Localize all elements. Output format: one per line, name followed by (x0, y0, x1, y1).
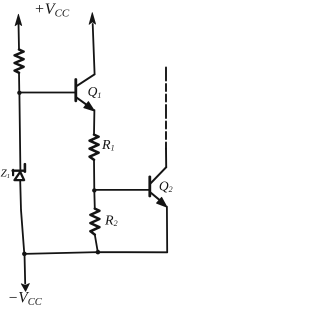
node (R1/R2/Q2-base junction) (92, 188, 96, 192)
resistor (unlabeled, left bias) (15, 50, 24, 73)
dashed wire (Q2 collector, to load) (165, 68, 167, 168)
resistor R2 (90, 209, 99, 235)
wire (R2 to bottom rail) (95, 235, 98, 253)
node (bottom-middle junction) (96, 250, 101, 255)
wire (R1 to node) (93, 160, 95, 191)
zener diode Z1 (13, 164, 25, 180)
wire (node to Q1 base) (19, 92, 75, 94)
wire (zener to bottom rail) (20, 180, 24, 253)
wire (resistor to node) (18, 73, 20, 93)
wire (Q2 emitter to bottom rail) (166, 207, 168, 253)
-Vcc supply arrow (21, 254, 29, 291)
wire (node down to R2) (93, 190, 96, 208)
transistor Q2 (150, 167, 167, 207)
wire (node to Q2 base) (94, 189, 149, 191)
+Vcc supply arrow (Q1 collector) (89, 13, 96, 75)
transistor Q1 (76, 74, 95, 111)
wire (bottom rail) (24, 252, 167, 254)
node (junction of base wire) (17, 91, 21, 95)
wire (Q1 emitter to R1) (93, 110, 95, 135)
wire (node down to zener Z1) (19, 93, 20, 171)
node (bottom-left junction) (22, 252, 27, 257)
+Vcc supply arrow (left rail) (15, 14, 22, 49)
resistor R1 (90, 135, 99, 160)
